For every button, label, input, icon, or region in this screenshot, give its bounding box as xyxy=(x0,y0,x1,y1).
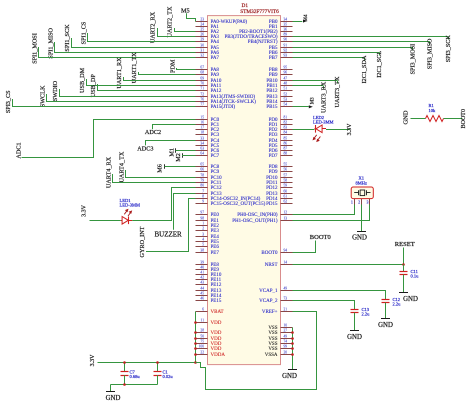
pin 3 PE4 (left) xyxy=(196,236,208,238)
pin 29 PA4 (left) xyxy=(196,41,208,43)
pin 97 PE0 (left) xyxy=(196,214,208,216)
capacitor C12 xyxy=(385,296,387,300)
svg-text:99: 99 xyxy=(284,345,288,349)
svg-text:SPI3_SCK: SPI3_SCK xyxy=(445,35,452,63)
svg-text:M2: M2 xyxy=(175,153,182,162)
svg-text:25: 25 xyxy=(200,28,204,32)
svg-text:71: 71 xyxy=(200,87,204,91)
wire VCAP_2 to C13 xyxy=(293,301,355,306)
pin 65 PC8 (left) xyxy=(196,166,208,168)
svg-text:6: 6 xyxy=(202,308,204,312)
wire PD2 to LED2 xyxy=(293,129,315,131)
svg-text:27: 27 xyxy=(284,329,288,333)
svg-text:24: 24 xyxy=(200,23,204,27)
pin 75 VDD (left) xyxy=(196,343,208,345)
ground xyxy=(381,318,390,320)
svg-text:73: 73 xyxy=(284,297,288,301)
wire SPI1_MOSI to PA7 xyxy=(39,47,196,58)
pin 62 PD15 (right) xyxy=(281,203,293,205)
pin 13 PH1-OSC_OUT(PH1) (right) xyxy=(281,220,293,222)
svg-text:84: 84 xyxy=(284,131,288,135)
svg-text:PD12: PD12 xyxy=(266,186,278,191)
svg-text:UART2_TX: UART2_TX xyxy=(167,6,174,37)
svg-text:40: 40 xyxy=(200,266,204,270)
svg-text:80: 80 xyxy=(200,184,204,188)
svg-text:90: 90 xyxy=(284,38,288,42)
svg-text:BOOT0: BOOT0 xyxy=(261,251,278,256)
crystal X1 body xyxy=(351,187,373,199)
pin 87 PD6 (right) xyxy=(281,150,293,152)
wire SPI1_SCK to PA5 xyxy=(72,38,196,48)
pin 46 PE15 (left) xyxy=(196,300,208,302)
wire NRST to junction xyxy=(293,264,404,266)
pin 35 PB1 (right) xyxy=(281,26,293,28)
svg-text:LED-3MM: LED-3MM xyxy=(120,203,141,208)
ground xyxy=(350,330,359,332)
wire LED2 to 3.3V xyxy=(326,129,350,131)
resistor R1 xyxy=(426,116,444,122)
svg-text:VSS: VSS xyxy=(268,331,277,336)
wire BUZZER to PC14 xyxy=(174,194,196,230)
svg-text:62: 62 xyxy=(284,200,288,204)
svg-text:57: 57 xyxy=(284,174,288,178)
pin 68 PA9 (left) xyxy=(196,74,208,76)
svg-text:63: 63 xyxy=(200,147,204,151)
svg-text:18: 18 xyxy=(200,131,204,135)
svg-text:ADC2: ADC2 xyxy=(145,129,161,136)
LED1 light arrows xyxy=(124,210,127,214)
pin 10 VSS (right) xyxy=(281,327,293,329)
pin 23 PA0-WKUP(PA0) (left) xyxy=(196,21,208,23)
svg-text:VSS: VSS xyxy=(268,347,277,352)
MCU U/D1 STM32F777VIT6 body xyxy=(208,16,281,365)
wire M2 to PC7 xyxy=(182,153,184,157)
svg-text:PB7: PB7 xyxy=(269,56,278,61)
svg-text:PE0: PE0 xyxy=(211,213,220,218)
wire UART2_RX to PA3 xyxy=(158,28,196,37)
wire SPI1_MISO to PA6 xyxy=(55,42,196,53)
svg-text:NRST: NRST xyxy=(265,263,278,268)
svg-text:PB9: PB9 xyxy=(269,73,278,78)
svg-text:PA15(JTDI): PA15(JTDI) xyxy=(211,105,236,110)
node C7 top xyxy=(123,361,126,364)
pin 95 PB8 (right) xyxy=(281,69,293,71)
svg-text:20: 20 xyxy=(284,351,288,355)
wire SPI3_MISO from PB4 xyxy=(293,41,430,43)
pin 58 PD11 (right) xyxy=(281,182,293,184)
node rail junction xyxy=(194,361,197,364)
svg-text:56: 56 xyxy=(284,168,288,172)
pin 55 PD8 (right) xyxy=(281,166,293,168)
svg-text:BUZZER: BUZZER xyxy=(155,231,183,239)
pin 18 PC3 (left) xyxy=(196,134,208,136)
svg-text:45: 45 xyxy=(200,292,204,296)
pin 96 PB9 (right) xyxy=(281,74,293,76)
wire SPI3_MOSI from PB5 xyxy=(293,47,413,49)
wire M3 from PB15 xyxy=(293,106,309,108)
svg-text:PH1-OSC_OUT(PH1): PH1-OSC_OUT(PH1) xyxy=(232,219,278,224)
svg-text:SPI3_MOSI: SPI3_MOSI xyxy=(410,44,417,75)
svg-text:PD3: PD3 xyxy=(269,133,278,138)
svg-text:GND: GND xyxy=(378,322,393,329)
pin 7 PC13 (left) xyxy=(196,193,208,195)
svg-text:PD9: PD9 xyxy=(269,170,278,175)
svg-text:SPI1_CS: SPI1_CS xyxy=(81,21,88,44)
pin 4 PE5 (left) xyxy=(196,241,208,243)
wire VBAT/VDD bus xyxy=(195,312,197,363)
wire UART3_RX from PB11 xyxy=(293,85,324,87)
svg-text:83: 83 xyxy=(284,126,288,130)
svg-text:UART2_RX: UART2_RX xyxy=(150,11,157,43)
svg-text:2.2u: 2.2u xyxy=(362,312,371,317)
wire VREF+ loop xyxy=(196,312,317,390)
capacitor C13 xyxy=(354,306,356,310)
wire I2C1_SCL from PB6 xyxy=(293,52,380,54)
svg-text:2: 2 xyxy=(202,227,204,231)
svg-text:1: 1 xyxy=(202,222,204,226)
svg-text:UART1_TX: UART1_TX xyxy=(131,52,138,83)
svg-text:2.2u: 2.2u xyxy=(393,302,402,307)
node VDD junction xyxy=(194,342,197,345)
svg-text:76: 76 xyxy=(200,98,204,102)
svg-text:3: 3 xyxy=(367,200,369,204)
pin 83 PD2 (right) xyxy=(281,129,293,131)
svg-text:95: 95 xyxy=(284,66,288,70)
svg-text:81: 81 xyxy=(284,116,288,120)
ground xyxy=(399,292,408,294)
svg-text:3.3V: 3.3V xyxy=(82,204,88,217)
svg-text:22: 22 xyxy=(200,351,204,355)
pin 26 PA3 (left) xyxy=(196,36,208,38)
LED LED1 symbol xyxy=(122,217,128,225)
svg-text:65: 65 xyxy=(200,163,204,167)
svg-text:SWDIO: SWDIO xyxy=(52,80,59,101)
pin 99 VSS (right) xyxy=(281,348,293,350)
pin 90 PB4(NJTRST) (right) xyxy=(281,41,293,43)
svg-text:41: 41 xyxy=(200,271,204,275)
wire UART1_RX to PA10 xyxy=(124,77,196,81)
svg-text:93: 93 xyxy=(284,54,288,58)
svg-text:VDD: VDD xyxy=(211,321,222,326)
wire 3.3V rail xyxy=(98,362,196,364)
svg-text:70: 70 xyxy=(200,82,204,86)
capacitor C7 xyxy=(124,363,126,372)
svg-text:PB12: PB12 xyxy=(266,89,278,94)
pin 85 PD4 (right) xyxy=(281,140,293,142)
svg-text:94: 94 xyxy=(284,249,288,253)
wire UART3_TX from PB10 xyxy=(293,80,338,82)
pin 73 VCAP_2 (right) xyxy=(281,300,293,302)
pin 98 PE1 (left) xyxy=(196,220,208,222)
pin 52 PB13 (right) xyxy=(281,96,293,98)
pin 33 PC4 (left) xyxy=(196,140,208,142)
svg-text:53: 53 xyxy=(284,98,288,102)
wire RESET label down xyxy=(403,248,405,265)
svg-text:PA4: PA4 xyxy=(211,40,220,45)
pin 22 VDDA (left) xyxy=(196,354,208,356)
pin 8 PC14-OSC32_IN(PC14) (left) xyxy=(196,198,208,200)
svg-text:92: 92 xyxy=(284,49,288,53)
svg-text:43: 43 xyxy=(200,281,204,285)
pin 12 PH0-OSC_IN(PH0) (right) xyxy=(281,214,293,216)
svg-text:VCAP_2: VCAP_2 xyxy=(259,299,278,304)
pin 44 PE13 (left) xyxy=(196,290,208,292)
pin 17 PC2 (left) xyxy=(196,129,208,131)
svg-text:100: 100 xyxy=(199,345,205,349)
svg-text:98: 98 xyxy=(200,217,204,221)
pin 80 PC12 (left) xyxy=(196,187,208,189)
wire SPI1_CS to PA4 xyxy=(88,33,196,42)
node VSS junction xyxy=(291,342,294,345)
svg-text:97: 97 xyxy=(200,211,204,215)
svg-text:M6: M6 xyxy=(157,164,164,173)
svg-text:8MHz: 8MHz xyxy=(356,180,368,185)
svg-text:96: 96 xyxy=(284,71,288,75)
pin 71 PA12 (left) xyxy=(196,90,208,92)
svg-text:RESET: RESET xyxy=(395,241,415,248)
wire GND to R1 xyxy=(411,118,426,120)
svg-text:61: 61 xyxy=(284,195,288,199)
capacitor C1 xyxy=(157,363,159,372)
ground xyxy=(288,369,297,371)
wire SPI3_CS to PA15 xyxy=(13,99,196,107)
svg-text:11: 11 xyxy=(201,319,205,323)
pin 5 PE6 (left) xyxy=(196,246,208,248)
svg-text:10: 10 xyxy=(284,324,288,328)
svg-text:PE6: PE6 xyxy=(211,245,220,250)
svg-text:3: 3 xyxy=(202,233,204,237)
svg-text:32: 32 xyxy=(200,54,204,58)
pin 54 PB15 (right) xyxy=(281,106,293,108)
svg-text:42: 42 xyxy=(200,276,204,280)
node VDD junction xyxy=(194,321,197,324)
pin 49 VCAP_1 (right) xyxy=(281,290,293,292)
pin 38 PE7 (left) xyxy=(196,252,208,254)
pin 45 PE14 (left) xyxy=(196,295,208,297)
pin 36 PB2-BOOT1(PB2) (right) xyxy=(281,31,293,33)
svg-text:4: 4 xyxy=(202,238,204,242)
svg-text:9: 9 xyxy=(202,200,204,204)
pin 24 PA1 (left) xyxy=(196,26,208,28)
pin 86 PD5 (right) xyxy=(281,145,293,147)
svg-text:55: 55 xyxy=(284,163,288,167)
svg-text:74: 74 xyxy=(284,340,288,344)
svg-text:UART3_RX: UART3_RX xyxy=(320,81,327,113)
pin 76 PA14(JTCK-SWCLK) (left) xyxy=(196,101,208,103)
pin 60 PD13 (right) xyxy=(281,193,293,195)
wire PDM to PA8 xyxy=(177,68,196,70)
svg-text:44: 44 xyxy=(200,287,204,291)
svg-text:PC3: PC3 xyxy=(211,133,220,138)
svg-text:15: 15 xyxy=(200,116,204,120)
svg-text:GND: GND xyxy=(347,334,362,341)
pin 41 PE10 (left) xyxy=(196,274,208,276)
svg-text:39: 39 xyxy=(200,261,204,265)
wire BOOT0 pin xyxy=(293,241,316,253)
pin 2 PE3 (left) xyxy=(196,230,208,232)
ground xyxy=(357,231,366,233)
svg-text:17: 17 xyxy=(200,126,204,130)
svg-text:I2C1_SCL: I2C1_SCL xyxy=(376,51,383,78)
pin 57 PD10 (right) xyxy=(281,177,293,179)
svg-text:GND: GND xyxy=(403,296,418,303)
svg-text:PA9: PA9 xyxy=(211,73,220,78)
node VSS junction xyxy=(291,353,294,356)
svg-text:58: 58 xyxy=(284,179,288,183)
svg-text:14: 14 xyxy=(284,261,288,265)
svg-text:86: 86 xyxy=(284,142,288,146)
svg-text:UART1_RX: UART1_RX xyxy=(116,57,123,89)
svg-text:64: 64 xyxy=(200,152,204,156)
wire to ground (C7/C1) xyxy=(110,385,112,392)
node VDD junction xyxy=(194,337,197,340)
pin 64 PC7 (left) xyxy=(196,155,208,157)
pin 48 PB11 (right) xyxy=(281,85,293,87)
svg-text:PD15: PD15 xyxy=(266,202,278,207)
svg-text:SPI1_MOSI: SPI1_MOSI xyxy=(31,33,38,64)
svg-text:PE15: PE15 xyxy=(211,299,222,304)
pin 63 PC6 (left) xyxy=(196,150,208,152)
wire caps bottom xyxy=(111,384,158,386)
svg-text:36: 36 xyxy=(284,28,288,32)
pin 66 PC9 (left) xyxy=(196,171,208,173)
svg-text:PDM: PDM xyxy=(170,59,177,73)
svg-text:72: 72 xyxy=(200,93,204,97)
svg-text:PC15-OSC32_OUT(PC15): PC15-OSC32_OUT(PC15) xyxy=(211,202,266,207)
svg-text:SPI3_CS: SPI3_CS xyxy=(5,90,12,113)
svg-text:51: 51 xyxy=(284,87,288,91)
pin 11 VDD (left) xyxy=(196,322,208,324)
svg-text:30: 30 xyxy=(200,44,204,48)
node VSS junction xyxy=(291,331,294,334)
pin 47 PB10 (right) xyxy=(281,80,293,82)
svg-text:59: 59 xyxy=(284,184,288,188)
wire SWDIO to PA13 xyxy=(60,89,196,97)
svg-text:GYRO_INT: GYRO_INT xyxy=(139,226,146,257)
node VDD junction xyxy=(194,353,197,356)
svg-text:3.3V: 3.3V xyxy=(347,123,353,136)
svg-text:1: 1 xyxy=(351,200,353,204)
svg-text:GND: GND xyxy=(352,234,367,241)
pin 91 PB5 (right) xyxy=(281,47,293,49)
net flag M3 xyxy=(309,105,313,108)
svg-text:PH0-OSC_IN(PH0): PH0-OSC_IN(PH0) xyxy=(237,213,278,218)
wire X1 pin3 to PH1 xyxy=(293,205,370,221)
svg-text:13: 13 xyxy=(284,217,288,221)
pin 92 PB6 (right) xyxy=(281,52,293,54)
pin 15 PC0 (left) xyxy=(196,119,208,121)
wire M5 to PA0 xyxy=(187,13,196,21)
svg-text:M4: M4 xyxy=(304,14,309,21)
svg-text:75: 75 xyxy=(200,340,204,344)
svg-text:52: 52 xyxy=(284,93,288,97)
svg-text:47: 47 xyxy=(284,77,288,81)
wire UART2_TX to PA2 xyxy=(175,28,196,32)
wire I2C1_SDA from PB7 xyxy=(293,57,365,59)
svg-text:PC7: PC7 xyxy=(211,154,220,159)
wire USB_DM to PA11 xyxy=(87,79,196,86)
pin 34 PB0 (right) xyxy=(281,21,293,23)
pin 78 PC10 (left) xyxy=(196,177,208,179)
svg-text:VCAP_1: VCAP_1 xyxy=(259,289,278,294)
pin 67 PA8 (left) xyxy=(196,69,208,71)
wire ADC3 to PC4 xyxy=(146,141,196,146)
svg-text:91: 91 xyxy=(284,44,288,48)
svg-text:12: 12 xyxy=(284,211,288,215)
capacitor C11 xyxy=(403,265,405,272)
pin 53 PB14 (right) xyxy=(281,101,293,103)
svg-text:SWCLK: SWCLK xyxy=(39,85,46,107)
pin 16 PC1 (left) xyxy=(196,124,208,126)
svg-text:GND: GND xyxy=(403,110,410,124)
svg-text:PB4(NJTRST): PB4(NJTRST) xyxy=(248,40,278,45)
pin 40 PE9 (left) xyxy=(196,269,208,271)
svg-text:68: 68 xyxy=(200,71,204,75)
svg-text:35: 35 xyxy=(284,23,288,27)
svg-text:0.02u: 0.02u xyxy=(163,374,174,379)
svg-text:23: 23 xyxy=(200,18,204,22)
pin 21 VREF+ (right) xyxy=(281,311,293,313)
wire M6 to PC8 xyxy=(164,164,166,168)
svg-text:29: 29 xyxy=(200,38,204,42)
wire LED1 cathode to PC12 xyxy=(132,188,195,221)
svg-text:38: 38 xyxy=(200,249,204,253)
svg-text:16: 16 xyxy=(200,121,204,125)
svg-text:34: 34 xyxy=(284,18,288,22)
svg-text:85: 85 xyxy=(284,137,288,141)
pin 43 PE12 (left) xyxy=(196,284,208,286)
wire GYRO_INT to PC15 xyxy=(146,199,196,252)
wire ADC1 to PC0 xyxy=(22,120,196,158)
svg-text:VSSA: VSSA xyxy=(265,353,278,358)
pin 82 PD1 (right) xyxy=(281,124,293,126)
svg-text:28: 28 xyxy=(200,329,204,333)
pin 30 PA5 (left) xyxy=(196,47,208,49)
pin 1 PE2 (left) xyxy=(196,225,208,227)
pin 34 PC5 (left) xyxy=(196,145,208,147)
svg-text:VDD: VDD xyxy=(211,331,222,336)
svg-text:ADC1: ADC1 xyxy=(16,142,23,158)
svg-text:UART3_TX: UART3_TX xyxy=(334,76,341,107)
svg-text:49: 49 xyxy=(284,287,288,291)
svg-text:VREF+: VREF+ xyxy=(262,310,278,315)
svg-text:49: 49 xyxy=(284,335,288,339)
wire UART4_RX to PC11 xyxy=(113,174,196,183)
wire 3.3V to LED1 anode xyxy=(90,220,121,222)
pin 79 PC11 (left) xyxy=(196,182,208,184)
svg-text:VDD: VDD xyxy=(211,347,222,352)
node VSS junction xyxy=(291,347,294,350)
svg-text:21: 21 xyxy=(284,308,288,312)
wire R1 to BOOT0 xyxy=(444,118,463,120)
pin 56 PD9 (right) xyxy=(281,171,293,173)
svg-text:2: 2 xyxy=(358,200,360,204)
svg-text:SPI3_MISO: SPI3_MISO xyxy=(427,38,434,69)
svg-text:PB15: PB15 xyxy=(266,105,278,110)
svg-text:M3: M3 xyxy=(311,97,316,104)
svg-text:LED-3MM: LED-3MM xyxy=(313,120,334,125)
svg-text:77: 77 xyxy=(200,103,204,107)
net flag M4 xyxy=(293,21,303,23)
svg-text:GND: GND xyxy=(106,395,121,402)
svg-text:PE7: PE7 xyxy=(211,251,220,256)
svg-text:ADC3: ADC3 xyxy=(137,145,153,152)
pin 93 PB7 (right) xyxy=(281,57,293,59)
LED2 light arrows xyxy=(314,135,317,139)
wire SPI3_SCK from PB3 xyxy=(293,36,449,38)
ground xyxy=(106,391,115,393)
svg-text:8: 8 xyxy=(202,195,204,199)
